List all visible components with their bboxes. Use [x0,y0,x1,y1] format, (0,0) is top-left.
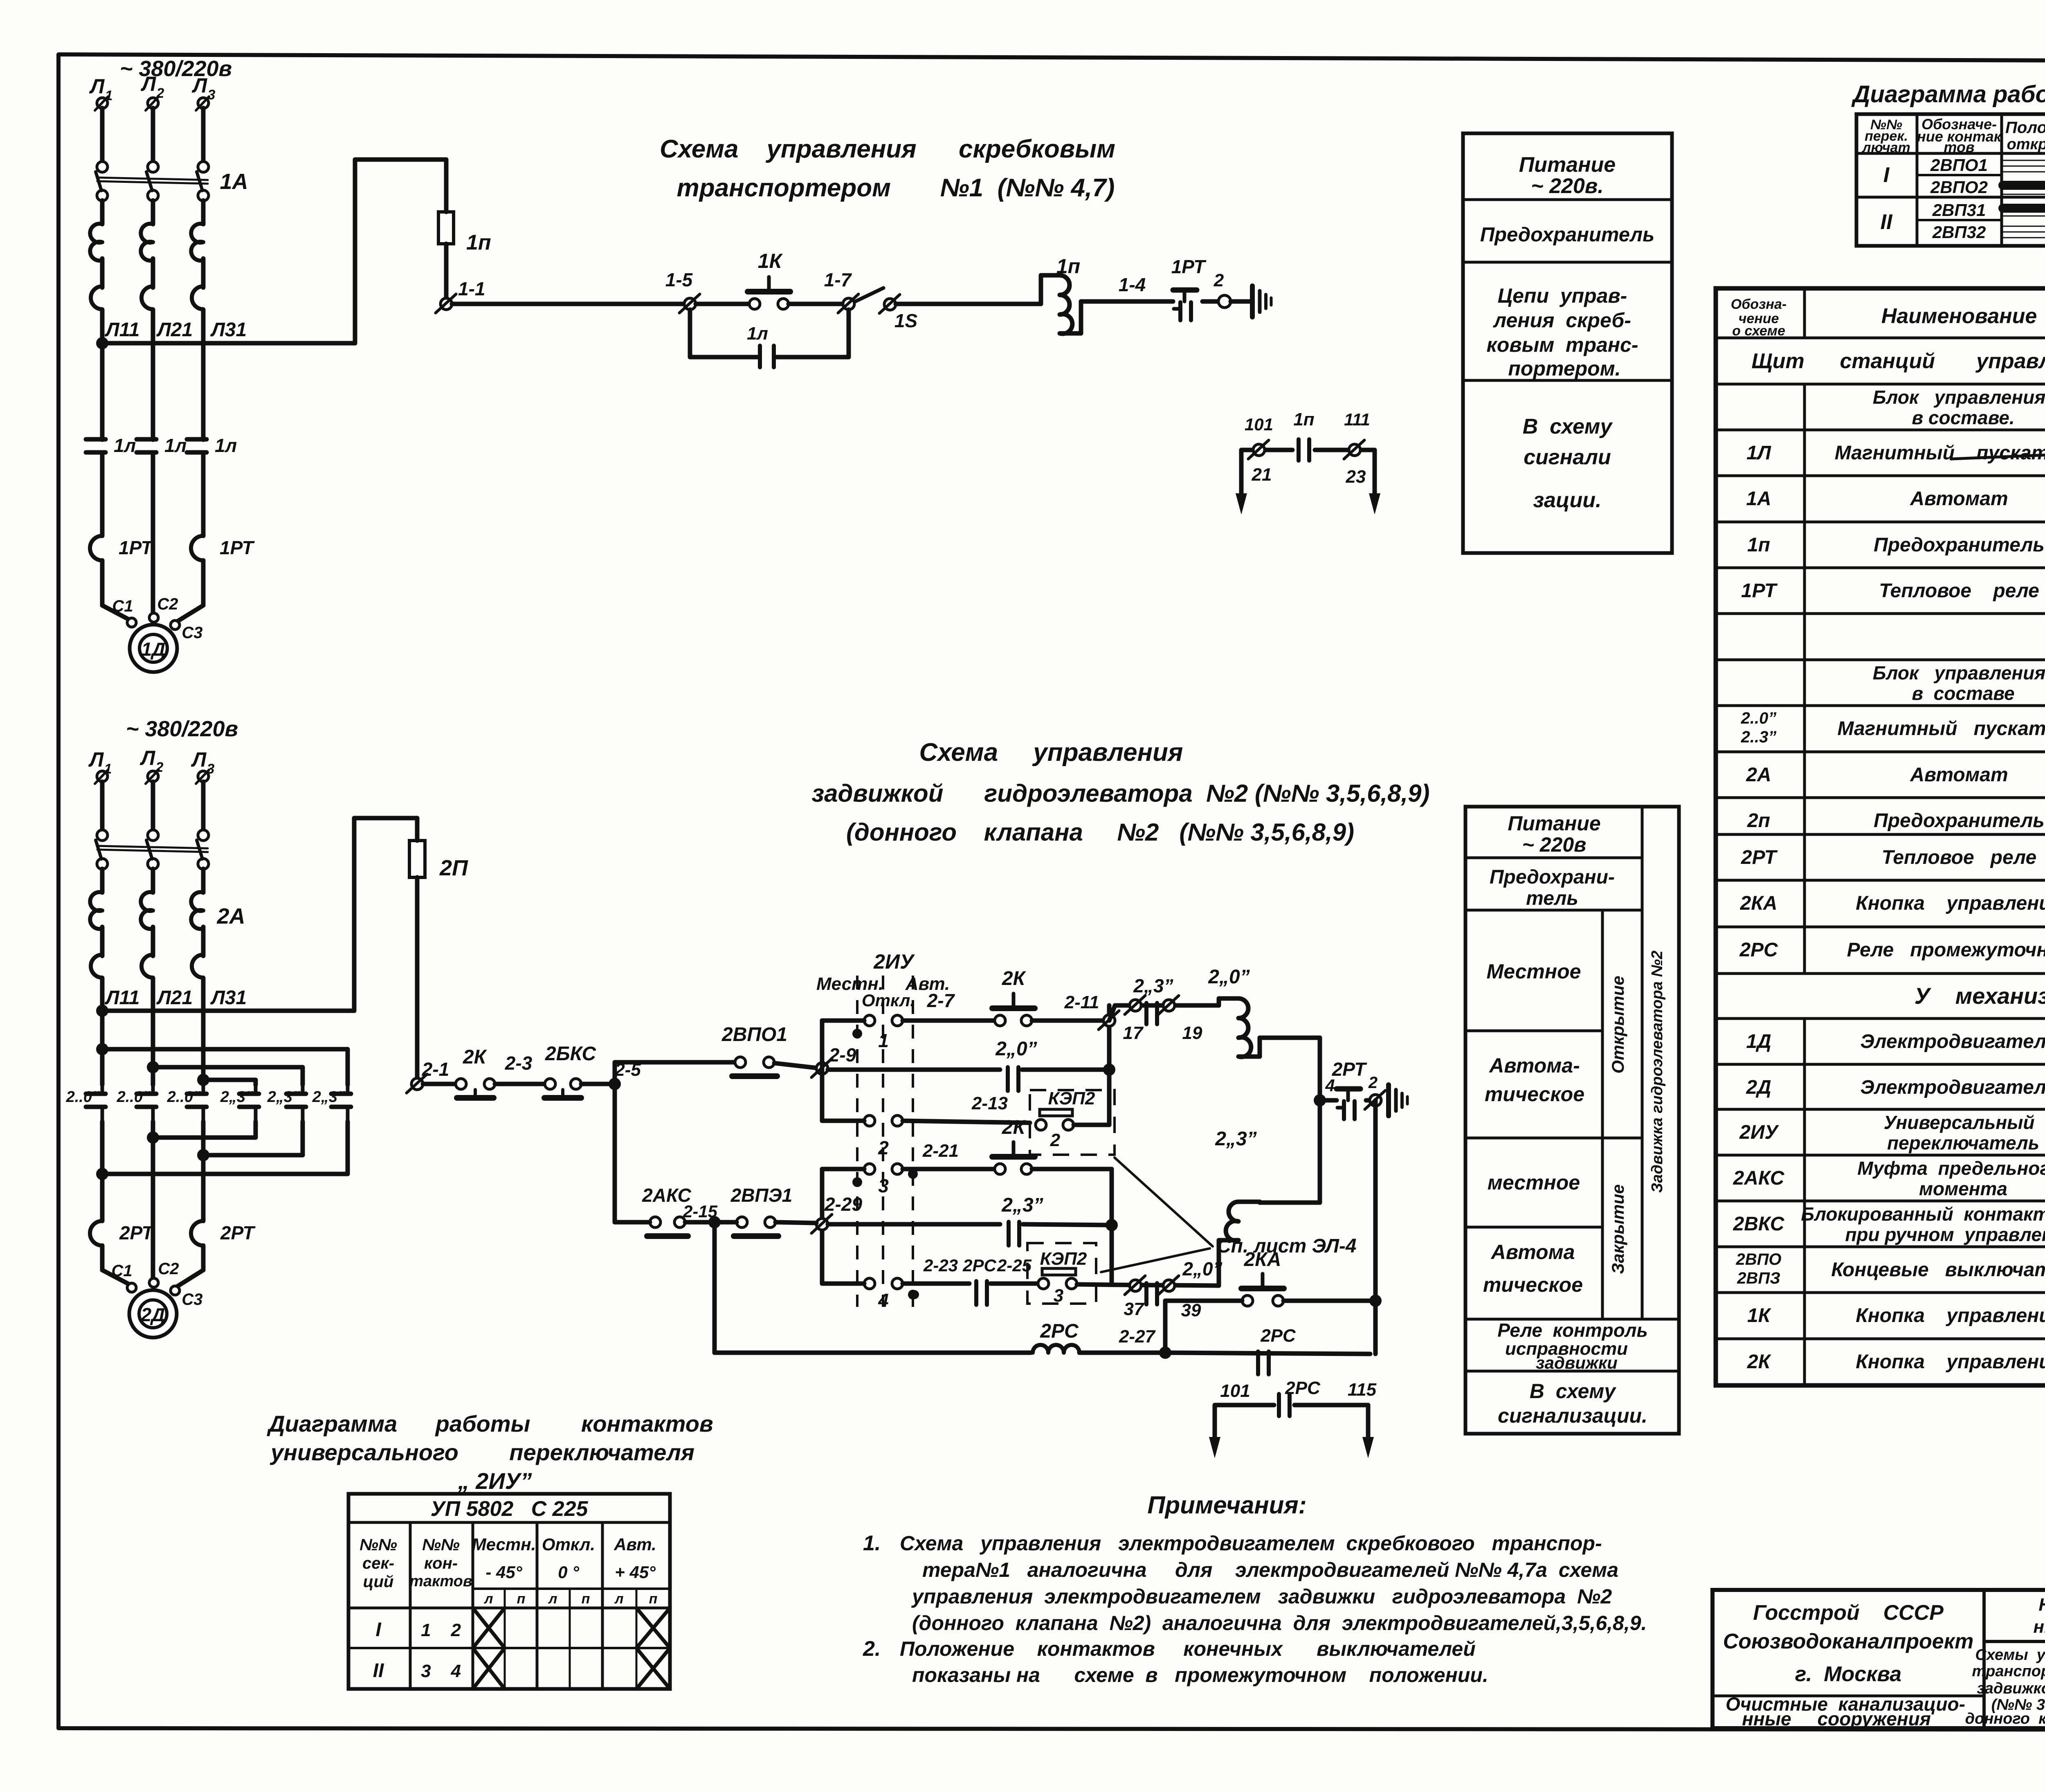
svg-text:Союзводоканалпроект: Союзводоканалпроект [1723,1630,1974,1653]
svg-text:2-7: 2-7 [927,990,955,1011]
contact 1Л holding [747,324,774,367]
svg-text:тов: тов [1944,139,1974,155]
svg-text:0 °: 0 ° [558,1563,580,1582]
svg-text:2РС: 2РС [1739,939,1778,961]
svg-text:УП 5802 С 225: УП 5802 С 225 [431,1497,589,1521]
svg-text:Примечания:: Примечания: [1147,1491,1306,1519]
svg-text:тическое: тическое [1485,1083,1584,1106]
svg-text:1п: 1п [466,231,491,254]
svg-text:2РТ: 2РТ [119,1222,155,1243]
svg-text:Л: Л [141,72,157,95]
svg-text:2Д: 2Д [141,1304,165,1325]
motor 1Д [130,625,177,672]
section header panel1 [1751,349,2045,373]
wire selfhold rung [828,1068,1000,1072]
svg-text:2АКС: 2АКС [1733,1167,1785,1189]
svg-text:лючат: лючат [1861,140,1910,155]
out rail 3 [96,1122,348,1180]
svg-text:2ВПО: 2ВПО [1735,1250,1781,1268]
label 23 [1346,467,1366,487]
vertical 2КА left [1163,1301,1168,1353]
svg-text:№№: №№ [360,1536,397,1554]
svg-text:Л31: Л31 [210,319,247,341]
title schema1 line2 [677,174,1115,202]
svg-text:111: 111 [1344,410,1370,429]
button 2К open [992,968,1035,1026]
wire rung2 [903,1093,1030,1123]
svg-text:II: II [1881,210,1893,234]
svg-text:Местное: Местное [1487,960,1581,983]
svg-text:Автома-: Автома- [1488,1054,1580,1077]
svg-text:2п: 2п [1747,810,1770,832]
svg-text:1Д: 1Д [1746,1031,1771,1052]
label 21 [1252,465,1272,485]
svg-text:показаны на схеме в пр: показаны на схеме в промежуточном положе… [912,1664,1488,1686]
svg-text:Л: Л [140,746,156,769]
svg-text:Концевые выключатели: Концевые выключатели [1831,1259,2045,1281]
svg-text:Л31: Л31 [210,987,247,1009]
wire phase3 to bus [201,200,206,343]
svg-text:17: 17 [1123,1023,1144,1043]
svg-text:У механизмов: У механизмов [1915,983,2045,1009]
svg-text:1: 1 [878,1030,889,1051]
svg-text:Л: Л [192,74,208,97]
component table rows [1733,387,2045,1373]
contactor contact 2..0 #2 [117,1085,156,1122]
svg-text:1К: 1К [758,250,783,272]
svg-text:п: п [649,1591,658,1607]
svg-text:КЭП2: КЭП2 [1040,1249,1087,1269]
wire rung1 d [896,302,1041,306]
svg-text:2РТ: 2РТ [1741,847,1778,868]
svg-text:2ИУ: 2ИУ [1739,1122,1779,1143]
motor 1Д leads [102,605,203,622]
arrow 115 down c2 [1362,1419,1374,1458]
svg-text:С2: С2 [158,1260,179,1278]
contact 1РТ [1171,256,1207,320]
vertical right main [1318,1038,1322,1203]
svg-text:тера№1 аналогична для: тера№1 аналогична для электродвигателей … [922,1558,1618,1581]
wire phase1 to bus c2 [100,869,105,1011]
svg-text:Тепловое реле: Тепловое реле [1879,580,2039,602]
switch 2ИУ labels [816,950,950,1010]
switch contact 4 [822,1278,919,1311]
svg-text:Задвижка гидроэлеватора №2: Задвижка гидроэлеватора №2 [1649,951,1666,1193]
label ~380/220v feed 1 [120,56,232,81]
node 2-11 [1099,1011,1119,1030]
svg-text:С3: С3 [182,1291,202,1309]
svg-text:2..0”: 2..0” [117,1088,151,1106]
svg-text:Предохранитель: Предохранитель [1874,810,2045,832]
out rail 2 [197,1122,303,1161]
switch contact 3 [822,1164,903,1196]
svg-text:2ВП32: 2ВП32 [1932,223,1986,242]
svg-text:Наименование: Наименование [1881,304,2037,328]
terminal C1 motor1 [112,597,136,627]
node 2-1 [407,1059,449,1093]
switch 1S [854,288,917,331]
wire phase2 drop c2 [151,782,155,830]
svg-text:2ВПО2: 2ВПО2 [1930,178,1988,197]
svg-text:переключатель: переключатель [1887,1132,2039,1153]
svg-text:3: 3 [208,87,216,103]
notes text [863,1531,1647,1686]
wire rung1 a [452,302,684,306]
svg-text:портером.: портером. [1508,357,1620,380]
svg-text:зации.: зации. [1533,488,1601,512]
arrow 101 down [1236,470,1247,515]
title schema2 line1 [919,738,1183,767]
svg-text:Кнопка управления: Кнопка управления [1856,893,2045,914]
motor 2Д leads [102,1270,203,1287]
svg-text:2РС: 2РС [1285,1378,1321,1398]
circuit breaker 1А switch [96,162,248,201]
svg-text:2ВП31: 2ВП31 [1932,200,1986,220]
contact 2РС selfhold [1258,1326,1296,1374]
title diagram VP700 [1851,81,2045,108]
terminal C3 motor1 [171,621,203,642]
svg-text:Обозна-: Обозна- [1731,297,1787,312]
svg-text:Питание: Питание [1508,812,1600,835]
arrow 101 down c2 [1209,1419,1220,1458]
svg-text:л: л [614,1591,623,1607]
svg-text:2..0”: 2..0” [167,1088,201,1106]
svg-text:л: л [548,1591,557,1607]
wire phase3 bus to contact [201,1011,206,1085]
svg-text:2ВПО1: 2ВПО1 [721,1024,787,1046]
wire stop rung b [495,1052,545,1084]
svg-text:1РТ: 1РТ [119,537,154,558]
vertical right upper [1107,1005,1112,1125]
wire to 2ВПО1 [615,1062,735,1084]
bus wire circuit2 [96,1005,354,1017]
button 1К [748,250,790,309]
svg-text:1РТ: 1РТ [1171,256,1207,277]
signal wire 101-115 [1215,1405,1368,1440]
svg-text:2-9: 2-9 [829,1044,856,1066]
wire rung1 f [1202,299,1218,304]
terminal C2 motor1 [149,595,178,622]
svg-text:Тепловое реле: Тепловое реле [1882,847,2036,868]
x marks row II [473,1648,505,1689]
wire rung3 a [903,1141,995,1169]
svg-text:Кнопка управления: Кнопка управления [1856,1305,2045,1327]
svg-text:2Д: 2Д [1746,1077,1771,1098]
contactor contact 2..3 #3 [312,1085,351,1122]
wire phase2 down c2 [151,1138,155,1284]
button 2К stop [456,1046,495,1098]
svg-text:2РС: 2РС [1040,1320,1079,1342]
breaker 2А trip elements [90,892,203,978]
contact 2РС rung4 [962,1256,996,1305]
svg-text:Щит станций управле: Щит станций управления Панель 1. [1751,349,2045,373]
svg-text:1л: 1л [747,324,768,344]
svg-text:2„3”: 2„3” [1001,1194,1043,1216]
svg-text:2„3”: 2„3” [267,1088,300,1106]
universal switch 2ИУ dashed columns [857,976,913,1307]
svg-text:1п: 1п [1293,409,1314,429]
contactor 1Л contact phase3 [187,343,237,536]
vertical left lower [820,1169,825,1284]
function table circuit2 [1465,807,1679,1434]
svg-text:19: 19 [1182,1023,1202,1043]
svg-text:1л: 1л [164,435,187,456]
vertical right lower [1110,1169,1114,1285]
svg-text:Авт.: Авт. [613,1535,656,1554]
thermal relay 1РТ phase3 [191,536,255,605]
node Л21 label c2 [156,987,193,1009]
svg-text:Л11: Л11 [105,319,140,341]
wire phase2 bus to contact [151,1011,155,1085]
svg-text:Госстрой СССР: Госстрой СССР [1753,1601,1944,1625]
svg-text:Местн.: Местн. [472,1535,536,1554]
svg-text:2-21: 2-21 [922,1141,959,1161]
svg-text:местное: местное [1488,1171,1580,1194]
svg-text:1л: 1л [114,435,136,456]
svg-text:С2: С2 [157,595,178,613]
title UP5802 line3 [458,1468,532,1494]
feed rail B [147,1061,303,1085]
svg-text:1л: 1л [215,435,237,456]
wire stop rung a [423,1082,455,1086]
svg-text:Предохрани-: Предохрани- [1490,866,1615,888]
node Л21 label [156,319,193,341]
wire 2РС to 2-27 [1079,1327,1160,1353]
svg-text:Питание: Питание [1519,153,1616,177]
svg-text:Предохранитель: Предохранитель [1480,224,1654,246]
svg-text:сигнализации.: сигнализации. [1498,1404,1647,1427]
svg-text:Схема управления скреб: Схема управления скребковым [660,135,1115,163]
svg-text:2: 2 [155,760,164,775]
svg-text:Блокированный контакт „Стоп: Блокированный контакт „Стоп [1801,1203,2045,1225]
contact 2..3 selfhold [1001,1194,1043,1246]
node 101 circuit1 [1245,415,1273,459]
svg-text:транспортером №1( №№ 4,7) и: транспортером №1( №№ 4,7) и [1972,1663,2045,1680]
svg-text:1А: 1А [220,169,248,194]
terminal C3 motor2 [171,1286,203,1309]
svg-text:2..3”: 2..3” [1741,728,1777,746]
svg-text:Откл.: Откл. [862,991,915,1010]
node 2-27 junction [1159,1347,1171,1359]
limit switch 2ВПЭ1 [720,1185,816,1236]
svg-text:Нефтеловушка из сборных жел: Нефтеловушка из сборных железобетон- [2038,1595,2045,1615]
switch contact 2 [822,1115,903,1158]
svg-text:3: 3 [878,1175,889,1196]
svg-text:2..0”: 2..0” [66,1088,100,1106]
svg-text:2-11: 2-11 [1064,992,1099,1012]
button 2БКС stop [544,1043,596,1098]
coil 2..3 close [1215,1128,1260,1286]
callout line Сп лист [1101,1158,1357,1272]
svg-text:тактов: тактов [409,1573,472,1590]
contactor 1Л contact phase1 [86,343,136,536]
wire fuse to node 1-1 [444,244,449,304]
svg-text:1РТ: 1РТ [1741,580,1778,602]
contactor contact 2..3 #1 [220,1085,259,1122]
wire coil2 to vert [1260,1201,1320,1205]
svg-text:кон-: кон- [424,1554,458,1572]
feed rail A [96,1043,348,1085]
wire 2-15 drop [708,1216,721,1353]
wire phase2 to bus c2 [151,869,155,1011]
wire selfhold rung b [1022,1064,1115,1076]
svg-text:(донного клапана №2 (: (донного клапана №2 (№№ 3,5,6,8,9) [846,818,1354,846]
svg-text:Л11: Л11 [105,987,140,1009]
wire rung3 b [1032,1167,1112,1171]
svg-text:задвижкой гидроэлеватора №2: задвижкой гидроэлеватора №2 [1977,1680,2045,1697]
svg-text:2„0”: 2„0” [1208,966,1249,988]
svg-text:открыта: открыта [2007,136,2045,153]
svg-text:нные сооружения: нные сооружения [1742,1708,1931,1729]
limit contact 17-19 [1109,975,1219,1043]
limit contact 37-39 [1112,1258,1223,1320]
node Л31 label c2 [210,987,247,1009]
svg-text:1: 1 [105,88,113,103]
svg-text:2-23: 2-23 [923,1256,958,1275]
svg-text:2-29: 2-29 [824,1194,862,1215]
wire selfhold close b [1023,1219,1118,1231]
motor 2Д [129,1290,177,1338]
svg-text:Электродвигатель: Электродвигатель [1860,1031,2045,1052]
breaker 1А trip elements [90,224,203,309]
svg-text:Схема управления: Схема управления [919,738,1183,767]
svg-text:2К: 2К [1002,968,1027,989]
svg-text:Л: Л [191,748,207,771]
out rail 1 [147,1122,256,1144]
button 2К close [992,1117,1035,1174]
node Л31 label [210,319,247,341]
svg-text:2„3”: 2„3” [1133,975,1173,996]
ground circuit1 [1252,286,1271,317]
svg-text:(донного клапана №2) аналог: (донного клапана №2) аналогична для элек… [912,1612,1647,1635]
node L1 terminal c2 [88,748,112,784]
svg-text:2К: 2К [1747,1351,1772,1373]
svg-text:2„3”: 2„3” [220,1088,253,1106]
svg-text:Цепи управ-: Цепи управ- [1498,284,1627,307]
svg-text:Магнитный пускатель: Магнитный пускатель [1837,718,2045,740]
svg-text:2-13: 2-13 [971,1093,1008,1113]
svg-text:Л21: Л21 [156,319,193,341]
svg-text:21: 21 [1252,465,1272,485]
svg-text:II: II [373,1660,384,1682]
contact diagram table VP700/2B [1856,114,2045,246]
svg-text:101: 101 [1245,415,1273,434]
wire phase1 drop [100,108,105,162]
wire phase1 to bus [100,200,105,343]
svg-text:управления электродвигателем: управления электродвигателем задвижки ги… [911,1585,1612,1608]
svg-text:Открытие: Открытие [1608,976,1627,1073]
svg-text:3: 3 [207,761,215,777]
thermal relay 1РТ phase1 [90,536,154,605]
bus wire circuit1 [96,337,355,349]
svg-text:2„3”: 2„3” [1215,1128,1256,1150]
svg-text:ковым транс-: ковым транс- [1486,333,1638,356]
svg-text:2ВПО1: 2ВПО1 [1930,155,1988,175]
svg-text:2П: 2П [439,856,468,880]
wire rung1 g [1231,299,1251,304]
vertical left upper [820,1021,825,1121]
svg-text:1-7: 1-7 [824,269,852,290]
node Л11 label [105,319,140,341]
svg-text:2ВПЭ1: 2ВПЭ1 [730,1185,793,1206]
limit switch 2АКС [615,1185,718,1236]
wire rung1 e [1081,274,1173,301]
svg-text:1К: 1К [1747,1305,1772,1327]
switch position dots [852,1029,918,1300]
title schema2 line3 [846,818,1354,846]
svg-text:1Л: 1Л [1746,442,1771,464]
wire phase2 drop [151,108,155,162]
svg-text:2РС: 2РС [962,1256,996,1275]
svg-text:г. Москва: г. Москва [1795,1662,1901,1686]
coil 2РС [715,1320,1079,1353]
wire phase3 drop c2 [201,782,206,830]
svg-text:1-1: 1-1 [458,278,485,299]
svg-text:3 4: 3 4 [421,1661,461,1681]
contact 2РС signal [1279,1378,1321,1416]
node 2-5 junction [609,1078,621,1090]
switch diagram table UP5802 [348,1494,670,1689]
x mark corrections [636,1608,670,1689]
wire 2-5 drop [613,1084,617,1222]
terminal C2 motor2 [149,1260,179,1287]
thermal relay 2РТ phase3 [191,1221,256,1270]
node L2 terminal c2 [140,746,164,784]
button 2КА [1165,1249,1382,1307]
svg-text:в составе: в составе [1912,683,2014,704]
svg-text:2„0”: 2„0” [1182,1258,1222,1279]
component table headers [1731,297,2045,339]
svg-text:Автомат: Автомат [1910,488,2008,510]
svg-text:2..0”: 2..0” [1741,709,1777,727]
svg-text:при ручном управлении.: при ручном управлении. [1845,1224,2045,1245]
svg-text:сигнали: сигнали [1524,445,1611,469]
contact 1п signal [1293,409,1314,461]
svg-text:1РТ: 1РТ [220,537,255,558]
svg-text:2: 2 [1214,270,1224,290]
coil 1п [1041,255,1081,334]
svg-text:Л: Л [89,75,105,98]
svg-text:С1: С1 [112,597,133,615]
wire rt b [1366,1098,1370,1103]
svg-text:2-15: 2-15 [683,1202,718,1221]
svg-text:I: I [375,1619,382,1641]
svg-text:2К: 2К [463,1046,488,1068]
wire phase2 to motor1 [151,452,155,612]
signal wire 101-111 [1241,450,1375,493]
contactor contact 2..0 #1 [66,1085,106,1122]
node L3 terminal [192,74,216,110]
node 1-1 [436,278,485,313]
svg-text:задвижки: задвижки [1536,1353,1618,1372]
svg-text:~ 380/220в: ~ 380/220в [120,56,232,81]
device КЭП2-3 box [1027,1243,1112,1306]
svg-text:Предохранитель: Предохранитель [1874,534,2045,556]
svg-text:п: п [517,1591,526,1607]
svg-text:1п: 1п [1056,255,1080,278]
wire riser to fuse 1п [355,160,446,343]
svg-text:1: 1 [104,761,112,777]
svg-text:„ 2ИУ”: „ 2ИУ” [458,1468,532,1494]
wire phase2 to bus [151,200,155,343]
svg-text:Реле промежуточное: Реле промежуточное [1847,939,2045,961]
wire phase1 down c2 [100,1174,105,1221]
svg-text:Положение контактов кон: Положение контактов конечных выключателе… [900,1637,1476,1660]
node 1-7 [824,269,858,313]
svg-text:Автомат: Автомат [1910,764,2008,786]
svg-text:101: 101 [1220,1381,1250,1401]
svg-text:~ 220в: ~ 220в [1522,833,1587,856]
